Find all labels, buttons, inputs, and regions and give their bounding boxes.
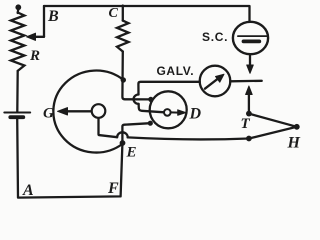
- wire galvanometer left to hop: [138, 82, 199, 95]
- junction dot small tube upper lead: [148, 97, 153, 102]
- svg-text:B: B: [47, 8, 59, 25]
- svg-text:E: E: [126, 145, 137, 161]
- wire hop over plate line: [134, 95, 139, 104]
- svg-text:T: T: [241, 116, 251, 132]
- junction dot envelope/plate: [121, 77, 126, 82]
- cell long plate: [238, 35, 267, 37]
- wiper arrow of R: [35, 36, 45, 38]
- tube U1 filament lead down: [99, 118, 118, 137]
- tube U1 grid arrow G: [67, 110, 92, 112]
- wire C resistor down to plate line: [122, 52, 150, 100]
- resistor R (rheostat zigzag): [11, 13, 25, 71]
- junction dot small tube lower lead: [148, 121, 153, 126]
- wire hop bottom to tiny anode: [139, 104, 165, 112]
- svg-text:H: H: [287, 135, 301, 152]
- node E dot: [120, 140, 126, 146]
- wire galvanometer right: [230, 80, 261, 83]
- wire to telephones: [128, 137, 249, 139]
- resistor C vertical top: [122, 6, 124, 21]
- svg-text:A: A: [22, 182, 34, 199]
- svg-text:S.C.: S.C.: [202, 30, 228, 44]
- contact arrow down from S.C.: [249, 55, 251, 67]
- wire wiper to B corner: [43, 6, 45, 37]
- wire battery to A corner and bottom wire to F: [17, 118, 122, 198]
- wire top (B to S.C.): [44, 6, 250, 22]
- standard cell S.C. circle: [233, 22, 268, 54]
- svg-text:F: F: [107, 180, 119, 197]
- cell short plate: [244, 40, 260, 44]
- svg-text:R: R: [29, 48, 40, 64]
- wire E up to small tube lower lead: [122, 123, 150, 144]
- telephones T-H cord: [249, 114, 297, 139]
- node dot at telephone bottom: [246, 136, 252, 142]
- svg-text:GALV.: GALV.: [157, 64, 195, 78]
- tube V2 arrow to D: [171, 111, 179, 113]
- contact arrow up from T: [248, 94, 250, 114]
- node H dot: [294, 124, 300, 130]
- resistor C zigzag: [117, 21, 129, 52]
- wire: [17, 9, 20, 13]
- battery cell: [4, 112, 30, 114]
- svg-text:C: C: [109, 6, 119, 21]
- tube V2 anode tiny circle: [164, 109, 171, 116]
- wire R bottom to battery: [16, 71, 19, 112]
- galvanometer needle: [205, 78, 219, 89]
- node T dot: [246, 111, 252, 117]
- tube U1 filament circle: [92, 104, 106, 118]
- galvanometer GALV circle: [200, 66, 231, 97]
- terminal dot top-left: [15, 4, 21, 10]
- svg-text:D: D: [189, 106, 202, 123]
- tube V2 envelope (small tube): [150, 91, 187, 128]
- tube U1 envelope (big tube): [53, 71, 123, 153]
- wire hop over E vertical: [117, 132, 128, 137]
- svg-text:G: G: [43, 105, 54, 121]
